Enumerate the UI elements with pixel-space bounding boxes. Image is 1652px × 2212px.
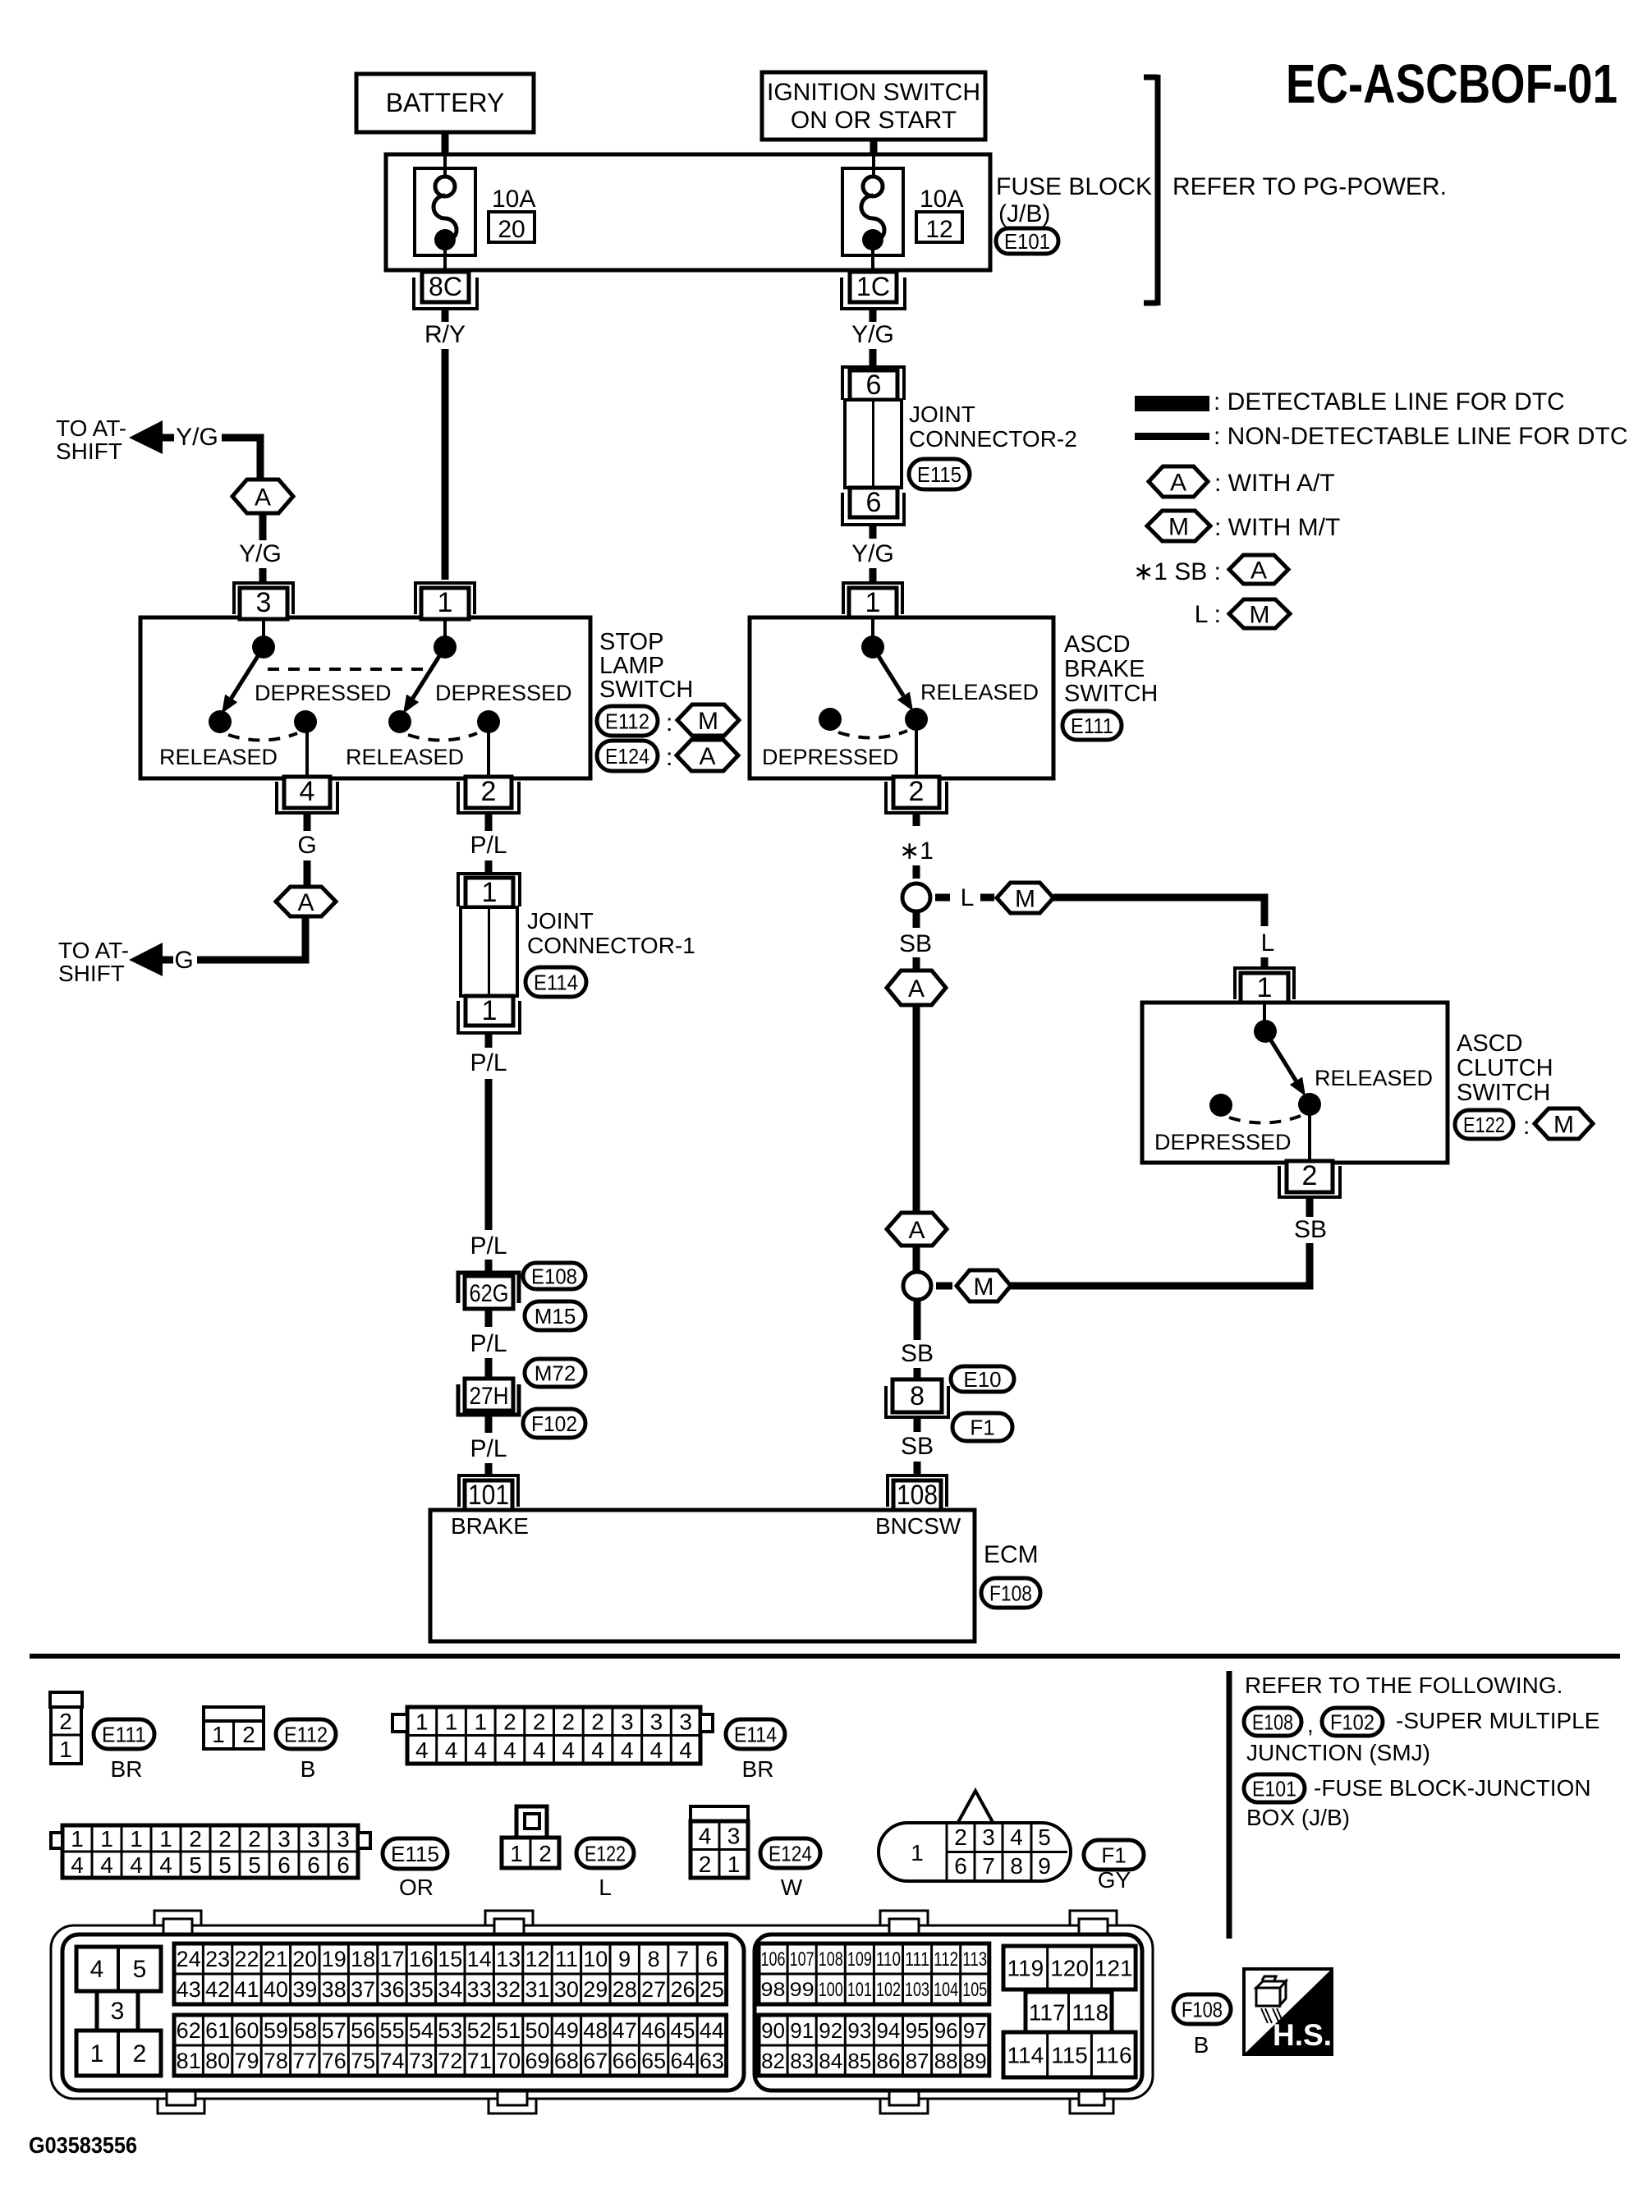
svg-text:19: 19 <box>322 1947 346 1971</box>
svg-text:P/L: P/L <box>470 1232 507 1260</box>
ECM pin 101 <box>459 1475 518 1512</box>
svg-text:64: 64 <box>670 2049 695 2073</box>
svg-text:E101: E101 <box>1004 229 1050 254</box>
svg-text:5: 5 <box>1038 1824 1051 1850</box>
svg-text:10A: 10A <box>492 186 535 213</box>
connector 1C <box>842 272 905 309</box>
ECM housing top tab 1 <box>154 1911 201 1934</box>
svg-text:GY: GY <box>1098 1867 1131 1893</box>
stop lamp switch box <box>140 617 590 778</box>
svg-text:W: W <box>781 1875 803 1900</box>
label JOINT CONNECTOR-1 <box>527 908 695 958</box>
svg-text:Y/G: Y/G <box>239 540 282 567</box>
svg-text:1: 1 <box>90 2040 104 2067</box>
wire P/L to 27H <box>485 1358 493 1379</box>
wire SB stub below 8 <box>914 1417 921 1432</box>
svg-text:: NON-DETECTABLE LINE FOR DTC: : NON-DETECTABLE LINE FOR DTC <box>1214 423 1628 450</box>
svg-text:B: B <box>1194 2032 1209 2058</box>
connector ref E112 with M <box>597 704 739 737</box>
brake switch contact dot <box>861 636 884 659</box>
svg-text:SHIFT: SHIFT <box>58 961 125 986</box>
svg-text:5: 5 <box>133 1956 147 1983</box>
wire Y/G stub below JC2 <box>870 525 877 539</box>
svg-text:8C: 8C <box>429 272 462 301</box>
svg-text:56: 56 <box>351 2018 375 2043</box>
svg-text:ECM: ECM <box>984 1541 1039 1568</box>
connector ref M72 <box>525 1359 585 1387</box>
legend label WITH A/T <box>1214 470 1335 497</box>
ECM big cells 119-121 <box>1003 1946 1136 1989</box>
label ASCD CLUTCH SWITCH <box>1457 1030 1553 1106</box>
svg-text:60: 60 <box>234 2018 259 2043</box>
svg-text:58: 58 <box>292 2018 317 2043</box>
svg-text:1C: 1C <box>856 272 890 301</box>
fuse number box 20 <box>489 212 535 243</box>
svg-text:102: 102 <box>876 1979 901 2001</box>
svg-text:OR: OR <box>399 1875 434 1900</box>
svg-text:51: 51 <box>496 2018 521 2043</box>
svg-text:105: 105 <box>962 1979 987 2001</box>
svg-text:112: 112 <box>934 1948 958 1971</box>
connector view F1 <box>879 1791 1071 1881</box>
svg-text:93: 93 <box>847 2018 871 2043</box>
label P/L above ECM <box>470 1435 507 1462</box>
svg-text:73: 73 <box>409 2049 434 2073</box>
legend thick line sample <box>1135 396 1209 411</box>
svg-text:38: 38 <box>322 1977 346 2002</box>
svg-text:72: 72 <box>438 2049 462 2073</box>
svg-text:12: 12 <box>925 216 952 243</box>
svg-text:4: 4 <box>679 1737 692 1763</box>
svg-text:A: A <box>297 889 314 916</box>
wire M to clutch switch pin 1 <box>1053 897 1264 926</box>
wire hexagon A down and left to arrow <box>197 916 305 960</box>
svg-text:1: 1 <box>59 1737 72 1762</box>
svg-text:3: 3 <box>727 1823 741 1848</box>
svg-text:ON OR START: ON OR START <box>791 107 957 134</box>
wire P/L long run <box>485 1079 493 1230</box>
svg-text:6: 6 <box>278 1852 291 1878</box>
svg-text:3: 3 <box>256 587 272 618</box>
label Y/G <box>851 321 894 348</box>
label DEPRESSED clutch <box>1154 1130 1292 1154</box>
svg-text:F108: F108 <box>989 1581 1032 1605</box>
svg-text:: WITH A/T: : WITH A/T <box>1214 470 1335 497</box>
svg-text:22: 22 <box>234 1947 259 1971</box>
svg-text:CLUTCH: CLUTCH <box>1457 1055 1553 1081</box>
connector ref E122 bottom <box>576 1838 634 1868</box>
hexagon A lower left <box>276 887 336 916</box>
stop lamp switch left contact dot <box>252 636 275 659</box>
svg-text:2: 2 <box>591 1709 604 1734</box>
svg-text:F1: F1 <box>1101 1843 1126 1867</box>
stop lamp switch left arm arrow <box>222 647 264 714</box>
svg-text:61: 61 <box>205 2018 230 2043</box>
svg-text:E124: E124 <box>769 1841 812 1866</box>
svg-text:1: 1 <box>474 1709 487 1734</box>
label SB above ECM <box>901 1433 934 1460</box>
svg-text:108: 108 <box>819 1948 843 1971</box>
svg-text:REFER TO THE FOLLOWING.: REFER TO THE FOLLOWING. <box>1245 1673 1563 1698</box>
svg-text:114: 114 <box>1007 2043 1044 2068</box>
svg-text:101: 101 <box>468 1480 509 1511</box>
brake switch wire dot to pin 2 <box>915 719 918 777</box>
brake switch arm arrow <box>873 647 913 711</box>
svg-text:7: 7 <box>677 1947 689 1971</box>
ECM housing right compartment <box>755 1934 1142 2090</box>
svg-text:2: 2 <box>189 1826 202 1852</box>
svg-text:1: 1 <box>1257 972 1273 1003</box>
svg-text:L: L <box>961 884 975 911</box>
svg-text:E114: E114 <box>734 1722 777 1746</box>
svg-text:6: 6 <box>705 1947 718 1971</box>
label B E112 <box>301 1756 316 1782</box>
svg-text:IGNITION SWITCH: IGNITION SWITCH <box>767 79 980 106</box>
joint connector-1 pin 1 bottom <box>458 995 520 1033</box>
arrow to AT-SHIFT upper <box>129 420 174 454</box>
ECM big cells 117-118 <box>1026 1992 1112 2032</box>
svg-text:Y/G: Y/G <box>851 540 894 567</box>
svg-text:106: 106 <box>761 1948 786 1971</box>
svg-text:P/L: P/L <box>470 1049 507 1076</box>
connector ref E10 <box>951 1366 1014 1392</box>
ECM left grid lower pins 44-81 <box>174 2015 727 2076</box>
svg-text:∗1 SB :: ∗1 SB : <box>1133 558 1221 585</box>
svg-text:2: 2 <box>1302 1160 1318 1191</box>
legend hexagon M <box>1147 511 1210 541</box>
svg-text:RELEASED: RELEASED <box>346 745 464 769</box>
svg-text:6: 6 <box>337 1852 350 1878</box>
joint connector-1 pin 1 top <box>458 874 520 908</box>
battery box <box>356 74 534 132</box>
svg-text:4: 4 <box>71 1852 84 1878</box>
label B F108 <box>1194 2032 1209 2058</box>
svg-text:57: 57 <box>322 2018 346 2043</box>
svg-text:9: 9 <box>618 1947 631 1971</box>
svg-text:E108: E108 <box>1252 1709 1293 1734</box>
svg-text:70: 70 <box>496 2049 521 2073</box>
svg-text:69: 69 <box>525 2049 549 2073</box>
legend hexagon M for L <box>1229 599 1290 628</box>
svg-text:E115: E115 <box>917 462 961 487</box>
svg-text:4: 4 <box>130 1852 143 1878</box>
label RELEASED clutch <box>1315 1066 1433 1090</box>
svg-text:29: 29 <box>583 1977 608 2002</box>
svg-text:1: 1 <box>71 1826 84 1852</box>
svg-text:97: 97 <box>963 2018 987 2043</box>
svg-text:2: 2 <box>481 776 497 807</box>
title EC-ASCBOF-01 <box>1286 53 1618 115</box>
legend label L <box>1195 601 1221 628</box>
svg-text:: DETECTABLE LINE FOR DTC: : DETECTABLE LINE FOR DTC <box>1214 388 1565 415</box>
bracket refer note <box>1144 75 1158 305</box>
svg-text:ASCD: ASCD <box>1064 631 1131 658</box>
svg-text:M: M <box>1553 1111 1574 1138</box>
ASCD brake switch pin 1 <box>843 583 902 619</box>
svg-text:FUSE BLOCK: FUSE BLOCK <box>996 173 1152 200</box>
wire ignition switch to fuse block <box>870 140 878 156</box>
svg-text:107: 107 <box>790 1948 815 1971</box>
svg-text:20: 20 <box>292 1947 317 1971</box>
svg-text:55: 55 <box>379 2018 404 2043</box>
ECM housing bottom tab 2 <box>489 2090 536 2113</box>
svg-text:TO AT-: TO AT- <box>56 415 126 441</box>
svg-text:4: 4 <box>159 1852 172 1878</box>
svg-text:1: 1 <box>159 1826 172 1852</box>
svg-text:81: 81 <box>177 2049 201 2073</box>
svg-text:G: G <box>174 947 193 974</box>
connector ref E108 mid <box>523 1263 585 1289</box>
svg-text:-FUSE BLOCK-JUNCTION: -FUSE BLOCK-JUNCTION <box>1314 1775 1591 1801</box>
svg-text:68: 68 <box>554 2049 579 2073</box>
wire SB below junction upper <box>913 911 920 928</box>
svg-text:DEPRESSED: DEPRESSED <box>435 681 572 705</box>
svg-text:SB: SB <box>899 930 932 957</box>
joint connector-2 pin 6 top <box>842 367 904 401</box>
svg-text:2: 2 <box>699 1852 712 1877</box>
stop lamp switch right swing arc <box>408 733 477 741</box>
ECM key block pins 1-5 <box>76 1947 161 2076</box>
ECM housing bottom tab 1 <box>158 2090 204 2113</box>
wire P/L stub below 62G <box>485 1309 493 1327</box>
label JUNCTION (SMJ) <box>1246 1740 1430 1765</box>
wire SB to ECM pin 108 <box>914 1462 921 1475</box>
wire P/L into 62G <box>485 1260 493 1274</box>
svg-text:67: 67 <box>583 2049 608 2073</box>
svg-text:8: 8 <box>910 1381 925 1411</box>
wire P/L to joint connector-1 <box>485 860 493 874</box>
svg-text:26: 26 <box>670 1977 695 2002</box>
connector ref E122 with M <box>1455 1108 1593 1140</box>
svg-text:JUNCTION (SMJ): JUNCTION (SMJ) <box>1246 1740 1430 1765</box>
svg-text:8: 8 <box>1010 1853 1023 1879</box>
svg-text:SWITCH: SWITCH <box>1457 1080 1550 1106</box>
svg-text:(J/B): (J/B) <box>998 200 1050 227</box>
svg-text:2: 2 <box>242 1722 255 1747</box>
stop lamp switch gang dashed line <box>268 668 428 671</box>
svg-text:4: 4 <box>445 1737 458 1763</box>
svg-text:104: 104 <box>934 1979 958 2001</box>
connector ref E112 bottom <box>276 1719 336 1749</box>
svg-text:E122: E122 <box>585 1841 626 1866</box>
svg-text:33: 33 <box>467 1977 492 2002</box>
svg-text:16: 16 <box>409 1947 434 1971</box>
svg-text:6: 6 <box>307 1852 320 1878</box>
svg-text:27: 27 <box>641 1977 666 2002</box>
svg-text:E101: E101 <box>1252 1776 1296 1801</box>
ASCD clutch switch box <box>1142 1003 1448 1163</box>
svg-text:76: 76 <box>322 2049 346 2073</box>
label P/L above 62G <box>470 1232 507 1260</box>
legend label non-detectable <box>1214 423 1628 450</box>
wire Y/G to pin 3 <box>259 568 267 581</box>
svg-text:RELEASED: RELEASED <box>159 745 278 769</box>
svg-text:4: 4 <box>1010 1824 1023 1850</box>
ECM housing top tab 4 <box>1070 1911 1117 1934</box>
legend hexagon A <box>1149 466 1208 497</box>
connector view E112 <box>204 1707 264 1749</box>
svg-text:17: 17 <box>379 1947 404 1971</box>
svg-text:E108: E108 <box>531 1264 577 1288</box>
svg-text:13: 13 <box>496 1947 521 1971</box>
ECM housing left compartment <box>62 1934 744 2090</box>
svg-text:M: M <box>1168 513 1189 540</box>
wire SB into connector 8 <box>914 1368 921 1381</box>
svg-text:Y/G: Y/G <box>176 424 218 451</box>
wire G stub below pin 4 <box>304 813 311 831</box>
svg-text:45: 45 <box>670 2018 695 2043</box>
svg-text:18: 18 <box>351 1947 375 1971</box>
svg-text:F102: F102 <box>1330 1709 1374 1734</box>
svg-text:119: 119 <box>1007 1956 1044 1981</box>
svg-text:M72: M72 <box>535 1361 576 1385</box>
connector ref E101 note <box>1244 1774 1305 1802</box>
svg-text:1: 1 <box>130 1826 143 1852</box>
stop lamp switch left released dot <box>209 710 232 733</box>
svg-text:P/L: P/L <box>470 1330 507 1357</box>
svg-text:108: 108 <box>897 1480 938 1511</box>
label REFER TO PG-POWER. <box>1172 173 1447 200</box>
svg-text:L: L <box>1261 929 1275 957</box>
label *1 <box>899 838 934 865</box>
label P/L below JC1 <box>470 1049 507 1076</box>
svg-text:3: 3 <box>621 1709 634 1734</box>
svg-text:120: 120 <box>1050 1956 1089 1981</box>
svg-text:66: 66 <box>613 2049 637 2073</box>
svg-text:L: L <box>599 1875 612 1900</box>
svg-text:: WITH M/T: : WITH M/T <box>1214 514 1340 541</box>
connector view E124 <box>691 1806 748 1878</box>
svg-text:12: 12 <box>525 1947 549 1971</box>
svg-text:101: 101 <box>847 1979 872 2001</box>
svg-text:A: A <box>908 975 925 1003</box>
svg-text:8: 8 <box>648 1947 660 1971</box>
label RELEASED left <box>159 745 278 769</box>
legend label detectable <box>1214 388 1565 415</box>
svg-text:37: 37 <box>351 1977 375 2002</box>
svg-text:87: 87 <box>906 2049 929 2073</box>
svg-text:14: 14 <box>467 1947 492 1971</box>
label STOP LAMP SWITCH <box>599 629 693 703</box>
svg-text:36: 36 <box>379 1977 404 2002</box>
wire G to hexagon A lower <box>304 860 311 887</box>
svg-text:DEPRESSED: DEPRESSED <box>1154 1130 1292 1154</box>
fuse 10A 12 <box>842 156 903 270</box>
svg-text:BRAKE: BRAKE <box>1064 656 1145 682</box>
svg-text:24: 24 <box>177 1947 201 1971</box>
svg-text:20: 20 <box>498 216 525 243</box>
brake switch swing arc <box>838 731 907 738</box>
horizontal separator line <box>30 1654 1620 1659</box>
svg-text:4: 4 <box>591 1737 604 1763</box>
svg-text:SWITCH: SWITCH <box>1064 681 1158 707</box>
svg-text:31: 31 <box>525 1977 549 2002</box>
svg-text:E111: E111 <box>1071 714 1113 738</box>
wire P/L stub below pin 2 <box>485 813 493 831</box>
brake switch common lead <box>871 619 874 639</box>
svg-text:47: 47 <box>613 2018 637 2043</box>
svg-text:R/Y: R/Y <box>424 321 466 348</box>
ECM right grid lower pins 82-97 <box>759 2015 989 2076</box>
label Y/G above pin 3 <box>239 540 282 567</box>
label ASCD BRAKE SWITCH <box>1064 631 1158 707</box>
ECM big cells 114-116 <box>1003 2032 1136 2077</box>
svg-text:1: 1 <box>482 877 498 908</box>
svg-text:2: 2 <box>133 2040 147 2067</box>
connector ref E115 <box>909 459 970 489</box>
label 10A fuse 12 <box>920 186 963 213</box>
svg-text:2: 2 <box>909 776 925 807</box>
ASCD clutch switch pin 1 <box>1235 968 1294 1004</box>
wire dash to label L <box>935 894 950 902</box>
svg-text:42: 42 <box>205 1977 230 2002</box>
label P/L below pin 2 <box>470 832 507 859</box>
svg-text:ASCD: ASCD <box>1457 1030 1523 1057</box>
svg-text:E112: E112 <box>284 1722 328 1746</box>
svg-text:90: 90 <box>761 2018 785 2043</box>
stop lamp switch right released dot <box>388 710 411 733</box>
stop lamp switch right common lead <box>443 619 447 639</box>
svg-text:M15: M15 <box>535 1304 576 1329</box>
svg-text:LAMP: LAMP <box>599 653 664 679</box>
connector ref F108 bottom <box>1173 1994 1231 2024</box>
svg-text:4: 4 <box>533 1737 546 1763</box>
fuse 10A 20 <box>415 156 475 270</box>
svg-text:91: 91 <box>790 2018 814 2043</box>
fuse block J/B box <box>386 154 990 270</box>
svg-text:2: 2 <box>503 1709 516 1734</box>
label comma <box>1307 1712 1314 1737</box>
svg-text:63: 63 <box>700 2049 724 2073</box>
brake switch released dot <box>905 708 928 731</box>
svg-text:59: 59 <box>264 2018 288 2043</box>
clutch switch wire dot to pin 2 <box>1308 1104 1311 1161</box>
svg-text:EC-ASCBOF-01: EC-ASCBOF-01 <box>1286 53 1618 115</box>
wire Y/G to brake switch pin 1 <box>870 568 877 581</box>
svg-text:75: 75 <box>351 2049 375 2073</box>
joint connector-2 body <box>845 400 902 488</box>
svg-text:4: 4 <box>503 1737 516 1763</box>
ECM housing top tab 3 <box>880 1911 928 1934</box>
label DEPRESSED left <box>255 681 392 705</box>
label OR E115 <box>399 1875 434 1900</box>
svg-text:∗1: ∗1 <box>899 838 934 865</box>
brake switch depressed dot <box>819 708 842 731</box>
stop lamp switch right contact dot <box>434 636 457 659</box>
stop lamp switch wire dot to pin 4 <box>305 722 309 777</box>
svg-text:P/L: P/L <box>470 1435 507 1462</box>
svg-text:P/L: P/L <box>470 832 507 859</box>
ECM connector housing outer <box>51 1925 1153 2099</box>
label L clutch feed <box>1261 929 1275 957</box>
svg-text:98: 98 <box>761 1979 786 2001</box>
label BOX (J/B) <box>1246 1805 1350 1830</box>
ECM box <box>430 1510 975 1641</box>
svg-text:JOINT: JOINT <box>909 402 975 427</box>
clutch switch swing arc <box>1229 1116 1301 1123</box>
svg-text:B: B <box>301 1756 316 1782</box>
stop lamp switch pin 4 <box>277 776 337 813</box>
svg-text:121: 121 <box>1094 1956 1133 1981</box>
svg-text:115: 115 <box>1051 2043 1088 2068</box>
svg-text:117: 117 <box>1029 2000 1066 2026</box>
svg-text:TO AT-: TO AT- <box>58 938 129 963</box>
svg-text:4: 4 <box>300 776 315 807</box>
ASCD brake switch box <box>750 617 1053 778</box>
label DEPRESSED brake <box>762 745 899 769</box>
svg-text:BNCSW: BNCSW <box>875 1513 961 1539</box>
svg-text:BOX (J/B): BOX (J/B) <box>1246 1805 1350 1830</box>
